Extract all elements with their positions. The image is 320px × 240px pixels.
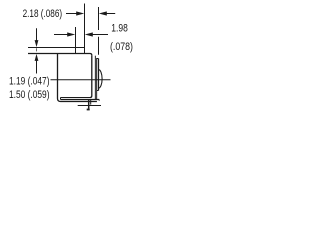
svg-text:1.50 (.059): 1.50 (.059) xyxy=(9,89,50,101)
dim 1.98 tail line left xyxy=(54,34,69,36)
cover bottom right corner xyxy=(98,100,100,101)
shaft tip bump arc xyxy=(99,70,103,89)
vertical dim tick between lines xyxy=(36,48,38,51)
dim 2.18 leader line from text xyxy=(66,13,77,15)
dim 2.18 tail line right xyxy=(106,13,115,15)
body inner right edge V1 xyxy=(90,55,92,97)
dim 2.18 arrowhead pointing left at E2 xyxy=(99,11,107,15)
shaft step right edge xyxy=(98,59,100,91)
terminal tongue joint xyxy=(60,98,62,100)
dim 2.18 arrowhead pointing right at E1 xyxy=(76,11,84,15)
extension line E3 (left edge of rotor boss, extended up) xyxy=(75,27,77,54)
cover seam vertical inner xyxy=(94,56,96,100)
terminal pin foot xyxy=(87,109,90,111)
inner bottom line xyxy=(61,97,91,99)
svg-text:1.98: 1.98 xyxy=(111,22,128,34)
dim 1.98 arrowhead pointing left at E1 xyxy=(85,32,93,36)
vertical dim up-arrow shaft xyxy=(36,60,38,74)
svg-text:1.19 (.047): 1.19 (.047) xyxy=(9,76,50,88)
extension line E2 lower segment (shaft tip) xyxy=(98,37,100,55)
shaft step top xyxy=(97,58,99,60)
terminal pin right edge xyxy=(90,100,92,105)
cover seam vertical outer xyxy=(96,58,98,100)
rotor boss top line h1, extended left as extension line xyxy=(28,47,85,49)
body left edge with rounded bottom corner xyxy=(58,54,61,102)
lid top line h2 with rounded right corner xyxy=(28,54,92,56)
vertical dim down-arrow shaft xyxy=(36,28,38,41)
vertical dim up-arrowhead at lid top xyxy=(35,54,39,61)
extension line E1 (right edge of rotor boss, extended up) xyxy=(84,4,86,54)
terminal pin left edge xyxy=(88,100,90,109)
outer bottom line xyxy=(61,99,100,101)
dim 1.98 tail line right xyxy=(92,34,108,36)
centerline leader xyxy=(51,79,111,81)
seating plane line xyxy=(78,105,101,107)
svg-text:(.078): (.078) xyxy=(110,41,133,53)
svg-text:2.18 (.086): 2.18 (.086) xyxy=(23,8,63,20)
hem bottom line xyxy=(61,101,97,103)
dim 1.98 arrowhead pointing right at E3 xyxy=(67,32,75,36)
extension line E2 upper segment (shaft tip) xyxy=(98,7,100,30)
vertical dim down-arrowhead at rotor top xyxy=(35,40,39,47)
shaft step bottom xyxy=(97,90,99,92)
